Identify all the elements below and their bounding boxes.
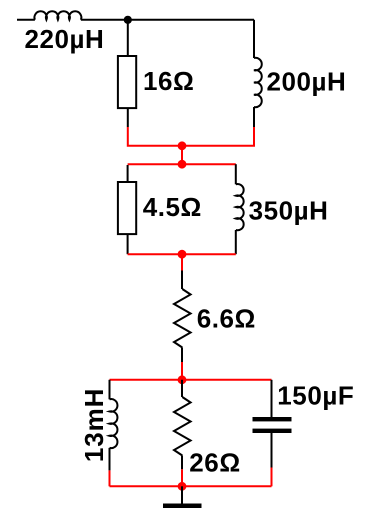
- capacitor C1 150µF: [253, 417, 292, 433]
- node N5: [178, 482, 187, 491]
- wire: [182, 127, 254, 146]
- inductor L1 220µH: [34, 11, 81, 20]
- node N4: [178, 375, 187, 384]
- wire: [81, 19, 254, 21]
- inductor L2 200µH: [254, 58, 262, 107]
- wire: [253, 20, 255, 58]
- node N1: [178, 141, 187, 150]
- wire: [127, 165, 129, 181]
- inductor L4 13mH: [110, 399, 118, 448]
- node junction top: [124, 16, 132, 24]
- wire: [110, 485, 272, 487]
- wire: [128, 127, 182, 146]
- wire: [127, 108, 129, 127]
- resistor R3 6.6Ω: [174, 289, 191, 348]
- wire: [235, 164, 237, 184]
- node N2: [178, 160, 187, 169]
- svg-text:16Ω: 16Ω: [143, 66, 194, 96]
- wire: [181, 456, 183, 470]
- node N3: [178, 250, 187, 259]
- svg-text:4.5Ω: 4.5Ω: [143, 192, 202, 222]
- svg-text:220µH: 220µH: [25, 24, 105, 54]
- wire: [235, 230, 237, 254]
- wire: [110, 379, 272, 381]
- resistor R4 26Ω: [174, 397, 191, 456]
- wire: [17, 19, 35, 21]
- wire: [181, 486, 183, 503]
- wire: [109, 380, 111, 400]
- wire: [109, 448, 111, 471]
- wire: [181, 348, 183, 363]
- svg-text:13mH: 13mH: [79, 388, 109, 462]
- svg-text:150µF: 150µF: [277, 380, 354, 410]
- resistor R1 16Ω: [118, 56, 136, 108]
- wire: [128, 163, 236, 165]
- wire: [181, 146, 183, 164]
- wire: [253, 107, 255, 127]
- wire: [127, 234, 129, 254]
- svg-text:200µH: 200µH: [267, 67, 347, 97]
- wire: [181, 380, 183, 397]
- wire: [127, 20, 129, 56]
- svg-text:6.6Ω: 6.6Ω: [197, 304, 256, 334]
- ground: [163, 504, 202, 509]
- wire: [271, 380, 273, 417]
- wire: [109, 470, 111, 486]
- wire: [271, 433, 273, 468]
- inductor L3 350µH: [236, 184, 244, 230]
- wire: [181, 271, 183, 290]
- wire: [181, 362, 183, 380]
- wire: [271, 468, 273, 487]
- wire: [128, 253, 236, 255]
- svg-text:350µH: 350µH: [249, 196, 329, 226]
- resistor R2 4.5Ω: [118, 182, 136, 234]
- wire: [181, 469, 183, 486]
- wire: [181, 254, 183, 270]
- svg-text:26Ω: 26Ω: [189, 447, 240, 477]
